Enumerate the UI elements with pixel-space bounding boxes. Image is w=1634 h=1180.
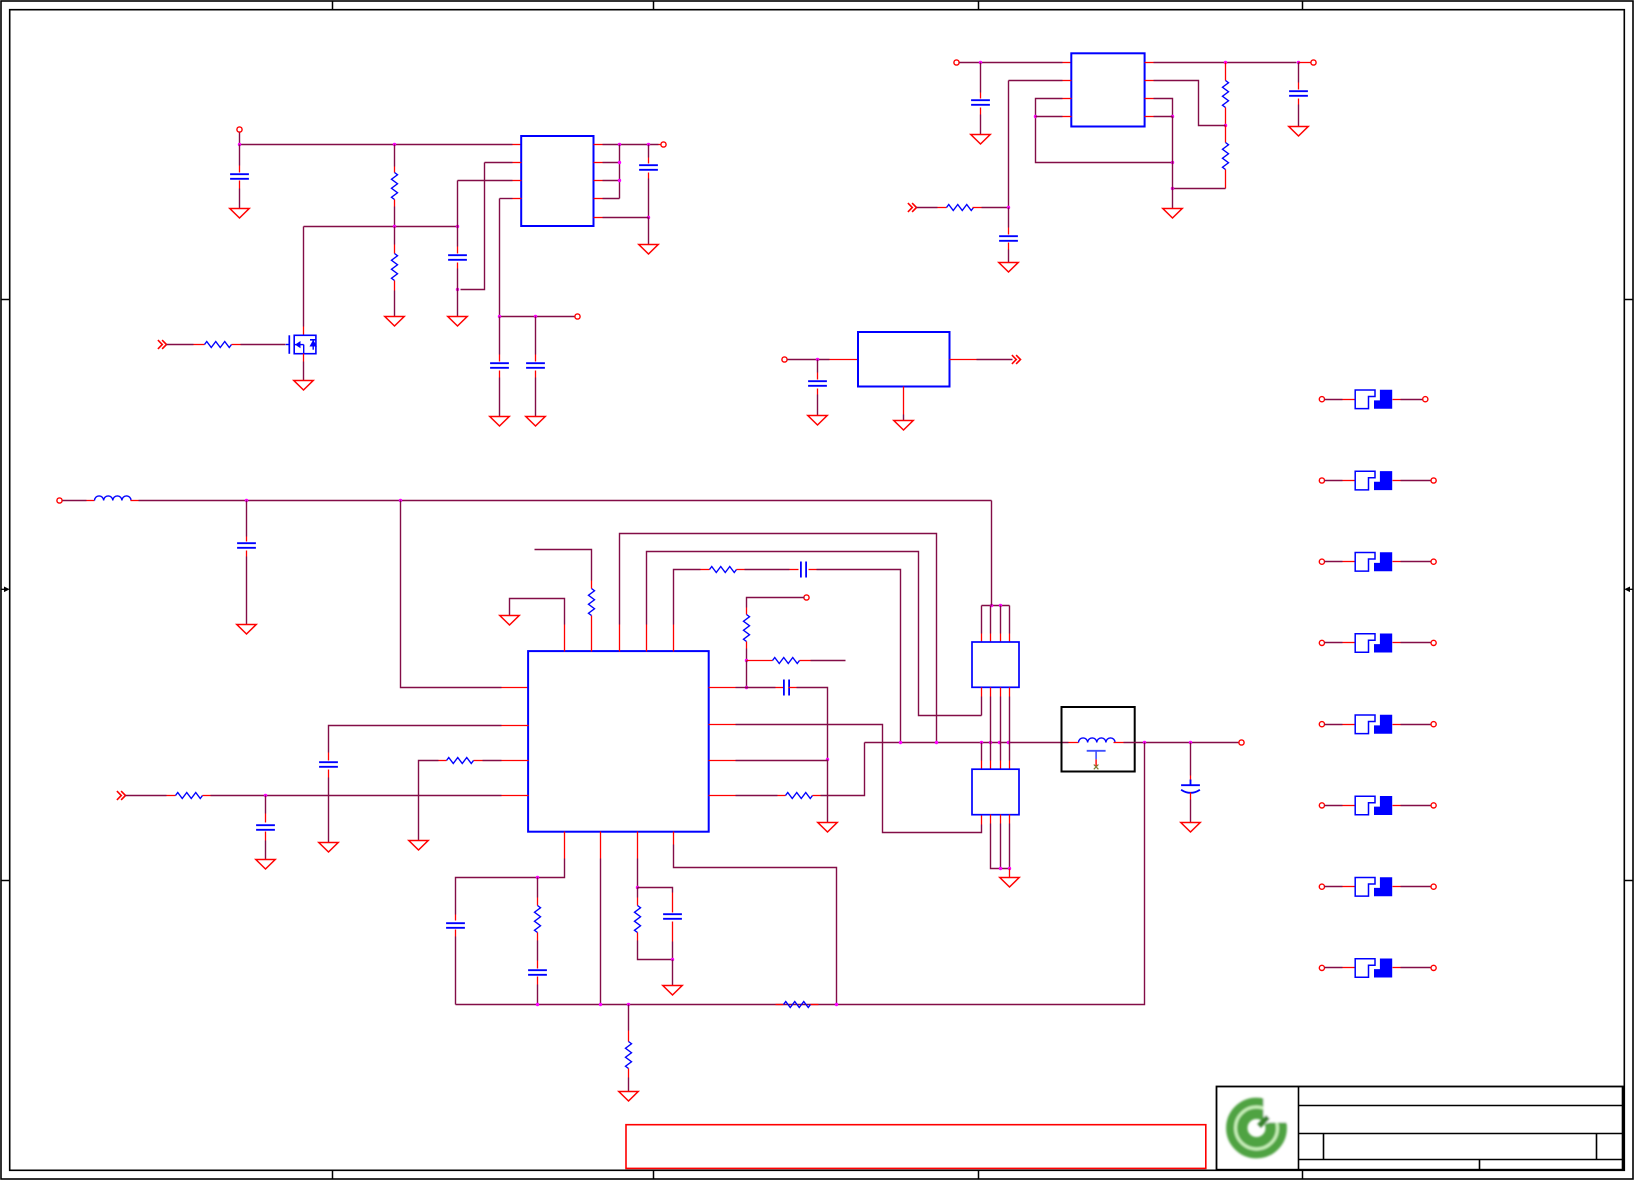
pin stub R10 top <box>746 608 748 615</box>
capacitor C4 <box>526 363 545 368</box>
jumper JP8 <box>1319 959 1436 978</box>
ground G2 <box>385 317 404 327</box>
pin stub C6 top <box>980 93 982 99</box>
pin stub R16 top <box>637 898 639 906</box>
node IN3-C15 <box>264 794 267 797</box>
wire SS net horizontal <box>500 316 575 318</box>
wire VOUT1 net <box>603 144 659 146</box>
pin stub R13 left <box>439 760 447 762</box>
wire C4 top <box>535 317 537 355</box>
node return-R18 <box>627 1003 630 1006</box>
wire C1 to ground <box>239 189 241 209</box>
pin stub R8 top <box>591 581 593 589</box>
pin stub U1 pin2 left <box>513 162 522 164</box>
capacitor C13 polarized <box>1181 780 1200 793</box>
terminal J7 <box>57 498 62 503</box>
terminal J8 <box>804 595 809 600</box>
wire L2 to output <box>1124 742 1143 744</box>
resistor R16 <box>635 906 641 933</box>
capacitor C17 <box>528 970 547 975</box>
inductor L1 <box>95 496 132 501</box>
pin stub FL1 bottom4 <box>1009 688 1011 697</box>
wire C15 top <box>265 796 267 814</box>
pin stub R5 right <box>973 207 982 209</box>
frame zone tick top 2 <box>653 1 655 10</box>
node bracket-feed <box>990 604 993 607</box>
wire C2 to junction <box>457 269 459 290</box>
resistor R2 <box>392 254 398 281</box>
wire C15 to ground <box>265 841 267 860</box>
pin stub C18 bottom <box>672 922 674 942</box>
pin stub U4 out <box>950 359 977 361</box>
frame zone tick left 2 <box>1 880 10 882</box>
resistor R5 <box>947 205 974 211</box>
pin stub U3 left3 <box>502 760 529 762</box>
wire R15 to C17 <box>537 941 539 961</box>
wire EN net <box>1009 80 1063 82</box>
node VIN1-R1 junction <box>393 143 396 146</box>
transistor Q1 <box>286 335 317 354</box>
input port IN3 chevron <box>117 791 126 800</box>
resistor R8 <box>589 589 595 616</box>
capacitor C9 <box>808 381 827 386</box>
pin stub C13 top <box>1190 776 1192 782</box>
wire R11 dead end <box>811 660 846 662</box>
frame zone tick right 1 <box>1625 299 1633 301</box>
wire out4 to vertical <box>603 198 620 200</box>
wire C13 to ground <box>1190 800 1192 823</box>
ground G3 <box>294 381 313 391</box>
resistor R7 <box>1223 143 1229 170</box>
wire C1 top <box>239 145 241 166</box>
node RF-XC1 branch <box>935 741 938 744</box>
wire U1 pin4 route <box>500 198 513 200</box>
wire R16 top link <box>637 888 639 898</box>
wire right2 long route <box>736 725 982 833</box>
capacitor C14 <box>319 762 338 767</box>
wire IN2 to R5 <box>917 207 938 209</box>
pin stub R10 bottom <box>746 642 748 649</box>
wire FL1-FL2 link 3 <box>1000 697 1002 761</box>
wire left2 to C14 <box>329 726 502 753</box>
frame zone tick bottom 1 <box>332 1171 334 1179</box>
wire C3 to ground <box>499 378 501 417</box>
wire FB net horizontal <box>304 226 458 228</box>
pin stub C11 left <box>790 569 799 571</box>
pin stub R12 right <box>813 795 821 797</box>
ground G1 <box>230 209 249 219</box>
input port IN1 chevron <box>158 340 167 349</box>
ground G16 <box>818 823 837 833</box>
node FB-C2 junction <box>456 225 459 228</box>
node RF-f2 <box>989 741 992 744</box>
node bot-RC branch <box>536 876 539 879</box>
pin stub C10 top <box>246 537 248 542</box>
wire U4 out to port <box>977 359 1013 361</box>
ground G11 <box>1163 209 1182 219</box>
pin stub C14 top <box>328 753 330 761</box>
capacitor C18 <box>663 914 682 919</box>
jumper JP5 <box>1319 715 1436 734</box>
pin stub U3 top4 <box>646 625 648 652</box>
wire VBAT down to bracket <box>991 501 993 606</box>
node right3 junction <box>826 758 829 761</box>
pin stub U2 p4 left <box>1063 116 1072 118</box>
pin stub C9 bottom <box>817 389 819 395</box>
pin stub U3 right3 <box>709 760 736 762</box>
node return-bot4 <box>835 1003 838 1006</box>
pin stub C13 bottom <box>1190 793 1192 800</box>
pin stub R6 bottom <box>1225 108 1227 126</box>
pin stub to J5 <box>1299 62 1312 64</box>
node VIN2-C6 <box>979 61 982 64</box>
ground G6 <box>526 417 545 427</box>
pin stub C18 top <box>672 893 674 913</box>
resistor R6 <box>1223 81 1229 108</box>
ground G22 <box>663 986 682 996</box>
input port IN2 chevron <box>908 203 917 212</box>
title block <box>1217 1087 1623 1170</box>
matching network shield box <box>1062 707 1135 772</box>
pin stub ground G17 stem <box>1009 869 1011 878</box>
pin stub U1 out3 right <box>594 180 603 182</box>
wire J7 to L1 <box>63 500 87 502</box>
pin stub R17 right <box>811 1004 819 1006</box>
wire R18 to ground <box>628 1078 630 1092</box>
capacitor C12 <box>784 680 789 696</box>
wire R7 bottom to gnd net <box>1173 188 1226 190</box>
capacitor C16 <box>446 923 465 928</box>
IC U4 regulator <box>858 332 950 387</box>
wire C2 junction to ground <box>457 290 459 317</box>
node FB2 <box>1224 124 1227 127</box>
capacitor C15 <box>256 825 275 830</box>
wire C18 to bracket <box>672 942 674 960</box>
ground G10 <box>1289 127 1308 137</box>
terminal J6 <box>782 357 787 362</box>
wire out3 to vertical <box>603 180 620 182</box>
ground G13 <box>894 421 913 431</box>
wire bracket to ground <box>672 960 674 986</box>
pin stub C11 right <box>809 569 817 571</box>
wire R3 to Q1 gate <box>241 344 286 346</box>
pin stub U3 bot4 <box>673 832 675 845</box>
node bracket-C18 <box>671 958 674 961</box>
resistor R10 <box>744 615 750 642</box>
pin stub R2 top <box>394 245 396 254</box>
node ANT-down <box>1143 741 1146 744</box>
pin stub FL1 top2 <box>990 634 992 643</box>
resistor R17 <box>784 1002 811 1008</box>
wire node to pin junction <box>746 661 748 688</box>
wire R8 stub up-left <box>535 550 592 581</box>
jumper JP2 <box>1319 471 1436 490</box>
pin stub U3 bot2 <box>600 832 602 859</box>
pin stub C17 bottom <box>537 977 539 985</box>
pin stub FL1 top3 <box>1000 634 1002 643</box>
pin stub L2 left <box>1069 742 1079 744</box>
pin stub C15 bottom <box>265 832 267 841</box>
wire IN3 to R14 <box>126 795 167 797</box>
node VBAT-C10 <box>245 499 248 502</box>
node SS-C4 junction <box>534 315 537 318</box>
pin stub C10 bottom <box>246 551 248 557</box>
ground G8 <box>971 135 990 145</box>
pin stub FL1 bottom1 <box>981 688 983 697</box>
pin stub C5 top <box>648 158 650 164</box>
pin stub R14 right <box>203 795 211 797</box>
pin stub FL1 bottom2 <box>990 688 992 697</box>
resistor R13 <box>447 758 474 764</box>
wire bracket to FL1 pin2 <box>990 606 992 634</box>
capacitor C1 <box>230 174 249 179</box>
pin stub U3 left2 <box>502 725 529 727</box>
wire U1 gnd to node <box>603 217 649 219</box>
pin stub L1 left <box>87 500 95 502</box>
pin stub C16 top <box>455 915 457 921</box>
IC U1 <box>521 136 593 226</box>
pin stub R15 top <box>537 898 539 906</box>
frame zone tick top 4 <box>1302 1 1304 10</box>
wire C6 top <box>980 63 982 93</box>
pin stub U1 gnd right <box>594 217 603 219</box>
pin stub U1 pin IN <box>513 144 522 146</box>
node RF-C11 branch <box>899 741 902 744</box>
wire bot3 down <box>637 859 639 888</box>
pin stub U3 left4 <box>502 795 529 797</box>
pin stub R15 bottom <box>537 933 539 941</box>
wire R2 to ground <box>394 291 396 317</box>
node gnd tie-116 <box>1171 115 1174 118</box>
wire C5 top <box>648 145 650 158</box>
pin stub FL2 top2 <box>990 761 992 770</box>
pin stub R16 bottom <box>637 933 639 941</box>
frame zone tick top 1 <box>332 1 334 10</box>
pin stub Q1 drain <box>303 327 305 336</box>
wire U1 pin2 to C2 node <box>485 162 513 164</box>
pin stub U3 top5 <box>673 625 675 652</box>
wire RC branch top <box>537 878 539 898</box>
wire bot2 down <box>600 859 602 1005</box>
pin stub FLB bottom1 <box>981 815 983 825</box>
node R10-R11 <box>745 659 748 662</box>
pin stub R3 left <box>194 344 205 346</box>
wire right1 to junction <box>736 687 747 689</box>
node pin1 right junction <box>745 686 748 689</box>
wire XC2 route <box>647 552 982 716</box>
pin stub FL2 bottom3 <box>1000 815 1002 824</box>
wire R16 to bracket <box>638 941 673 960</box>
pin stub R18 top <box>628 1031 630 1042</box>
pin stub U3 bot1 <box>564 832 566 859</box>
wire C3 top <box>499 317 501 355</box>
pin stub C2 bottom <box>457 263 459 269</box>
jumper JP7 <box>1319 877 1436 896</box>
pin stub R11 left <box>747 660 773 662</box>
pin stub C8 top <box>1298 83 1300 90</box>
wire C16 to return <box>455 937 457 1005</box>
capacitor C6 <box>971 100 990 105</box>
terminal J4 <box>954 60 959 65</box>
ground G17 <box>1000 878 1019 888</box>
pin stub R9 right <box>737 569 745 571</box>
resistor R9 <box>710 567 737 573</box>
pin stub U2 p4 right <box>1145 116 1154 118</box>
pin stub U2 en left <box>1063 80 1072 82</box>
ground G21 <box>256 860 275 870</box>
wire FL1-FL2 link 4 <box>1009 697 1011 761</box>
ground G19 <box>319 843 338 853</box>
wire U2 p3 left loop <box>1036 99 1173 163</box>
pin stub C4 bottom <box>535 371 537 378</box>
wire C10 to ground <box>246 557 248 625</box>
pin stub C7 bottom <box>1008 243 1010 250</box>
node VOUT2-R6 <box>1224 61 1227 64</box>
pin stub R12 left <box>778 795 786 797</box>
wire pin2 down-left <box>461 163 485 290</box>
ground G12 <box>808 416 827 426</box>
ground G7 <box>639 245 658 255</box>
wire U2 p4 to tie <box>1036 116 1063 118</box>
wire C9 to ground <box>817 395 819 416</box>
wire FB to Q1 drain <box>303 227 305 327</box>
pin stub C4 top <box>535 355 537 362</box>
ground G23 <box>619 1092 638 1102</box>
node VOUT1-C5 <box>647 143 650 146</box>
capacitor C11 <box>801 562 806 578</box>
wire right3 to junction <box>736 760 828 762</box>
pin stub U1 out4 right <box>594 198 603 200</box>
pin stub R17 left <box>776 1004 784 1006</box>
node tie-163 <box>618 161 621 164</box>
node return-C17 <box>536 1003 539 1006</box>
wire C6 to ground <box>980 115 982 135</box>
terminal J9 antenna <box>1239 740 1244 745</box>
wire C14 to ground <box>328 778 330 843</box>
wire FL1 pin1 to XC2 net <box>981 697 983 716</box>
node gnd tie-162 <box>1171 161 1174 164</box>
pin stub U1 out1 right <box>594 144 603 146</box>
pin stub C3 bottom <box>499 371 501 378</box>
node VOUT1-a <box>618 143 621 146</box>
pin stub U2 in <box>1063 62 1072 64</box>
pin stub FL2 top1 <box>981 761 983 770</box>
wire gnd vertical <box>1172 117 1174 209</box>
wire right4 to R12 <box>736 795 778 797</box>
wire bot4 route <box>674 845 837 1005</box>
pin stub R14 left <box>167 795 176 797</box>
wire VOUT1 vertical tie <box>619 145 621 199</box>
node VBAT-U3 <box>399 499 402 502</box>
wire FL2 gnd bracket <box>991 824 1010 869</box>
pin stub C17 top <box>537 961 539 969</box>
pin stub U3 right4 <box>709 795 736 797</box>
pin stub C14 bottom <box>328 770 330 778</box>
wire FL1-FL2 link 2 <box>990 697 992 761</box>
capacitor C7 <box>999 236 1018 241</box>
ground G20 <box>409 841 428 851</box>
pin stub U2 fb right <box>1145 80 1154 82</box>
inductor L2 <box>1079 738 1116 743</box>
wire C17 to return <box>537 985 539 1005</box>
wire R1 to FB net <box>394 207 396 227</box>
node tie-181 <box>618 179 621 182</box>
wire feed to FL2 pin1 <box>981 743 983 761</box>
ground G14 <box>237 625 256 635</box>
node EN-C7 <box>1007 206 1010 209</box>
wire RF feed line <box>865 742 1069 744</box>
jumper JP3 <box>1319 552 1436 571</box>
ground G18 <box>1181 823 1200 833</box>
frame zone tick left 1 <box>1 299 10 301</box>
wire FL1 top bracket <box>982 605 1010 607</box>
pin stub FL1 top4 <box>1009 634 1011 643</box>
frame zone tick bottom 4 <box>1302 1171 1304 1179</box>
jumper JP4 <box>1319 634 1436 653</box>
pin stub C12 right <box>789 687 797 689</box>
pin stub L1 right <box>131 500 139 502</box>
wire VBAT to U3 pin1 <box>401 501 502 688</box>
pin stub R8 bottom <box>591 616 593 629</box>
pin stub U1 pin4 left <box>513 198 522 200</box>
pin stub C2 top <box>457 247 459 254</box>
terminal J5 <box>1311 60 1316 65</box>
node VIN3-C9 <box>816 358 819 361</box>
pin stub C1 top <box>239 166 241 173</box>
wire FL2 pin3 to bracket <box>1000 824 1002 869</box>
wire ANT return route <box>456 743 1145 1005</box>
pin stub R1 bottom <box>394 200 396 207</box>
pin stub R13 right <box>474 760 483 762</box>
wire ANT net <box>1143 742 1240 744</box>
output port OUT1 chevron <box>1012 355 1021 364</box>
revision note rectangle <box>626 1125 1206 1169</box>
wire left3 to R13 <box>483 760 502 762</box>
wire EN vertical <box>1008 81 1010 208</box>
frame zone tick top 3 <box>978 1 980 10</box>
pin stub Q1 source <box>303 354 305 362</box>
wire RF bias route up <box>674 570 701 625</box>
jumper JP1 <box>1319 390 1428 409</box>
resistor R14 <box>176 793 203 799</box>
frame center arrow left <box>1 587 10 593</box>
stub T element <box>1087 751 1106 770</box>
pin stub C7 top <box>1008 228 1010 235</box>
wire C13 top <box>1190 743 1192 776</box>
wire C10 top <box>246 501 248 537</box>
wire J1 to net VIN1 <box>239 133 241 145</box>
capacitor C5 <box>639 165 658 170</box>
capacitor C8 <box>1289 91 1308 96</box>
pin stub C15 top <box>265 814 267 823</box>
frame zone tick bottom 3 <box>978 1171 980 1179</box>
ground G4 <box>448 317 467 327</box>
filter FL1 <box>972 642 1019 687</box>
pin stub FL2 bottom4 <box>1009 815 1011 824</box>
wire XC1 route <box>620 534 937 743</box>
pin stub U2 p3 left <box>1063 98 1072 100</box>
pin stub R11 right <box>800 660 811 662</box>
pin stub to J3 <box>659 144 661 146</box>
company logo <box>1236 1092 1293 1149</box>
wire U1 pin3 to C2 <box>458 180 513 182</box>
frame center arrow right <box>1624 587 1633 593</box>
wire U2 p4 right to gnd <box>1154 116 1173 118</box>
node SS-C3 junction <box>498 315 501 318</box>
wire J8 to R10 <box>747 598 805 608</box>
pin stub R5 left <box>938 207 947 209</box>
pin stub U1 pin3 left <box>513 180 522 182</box>
